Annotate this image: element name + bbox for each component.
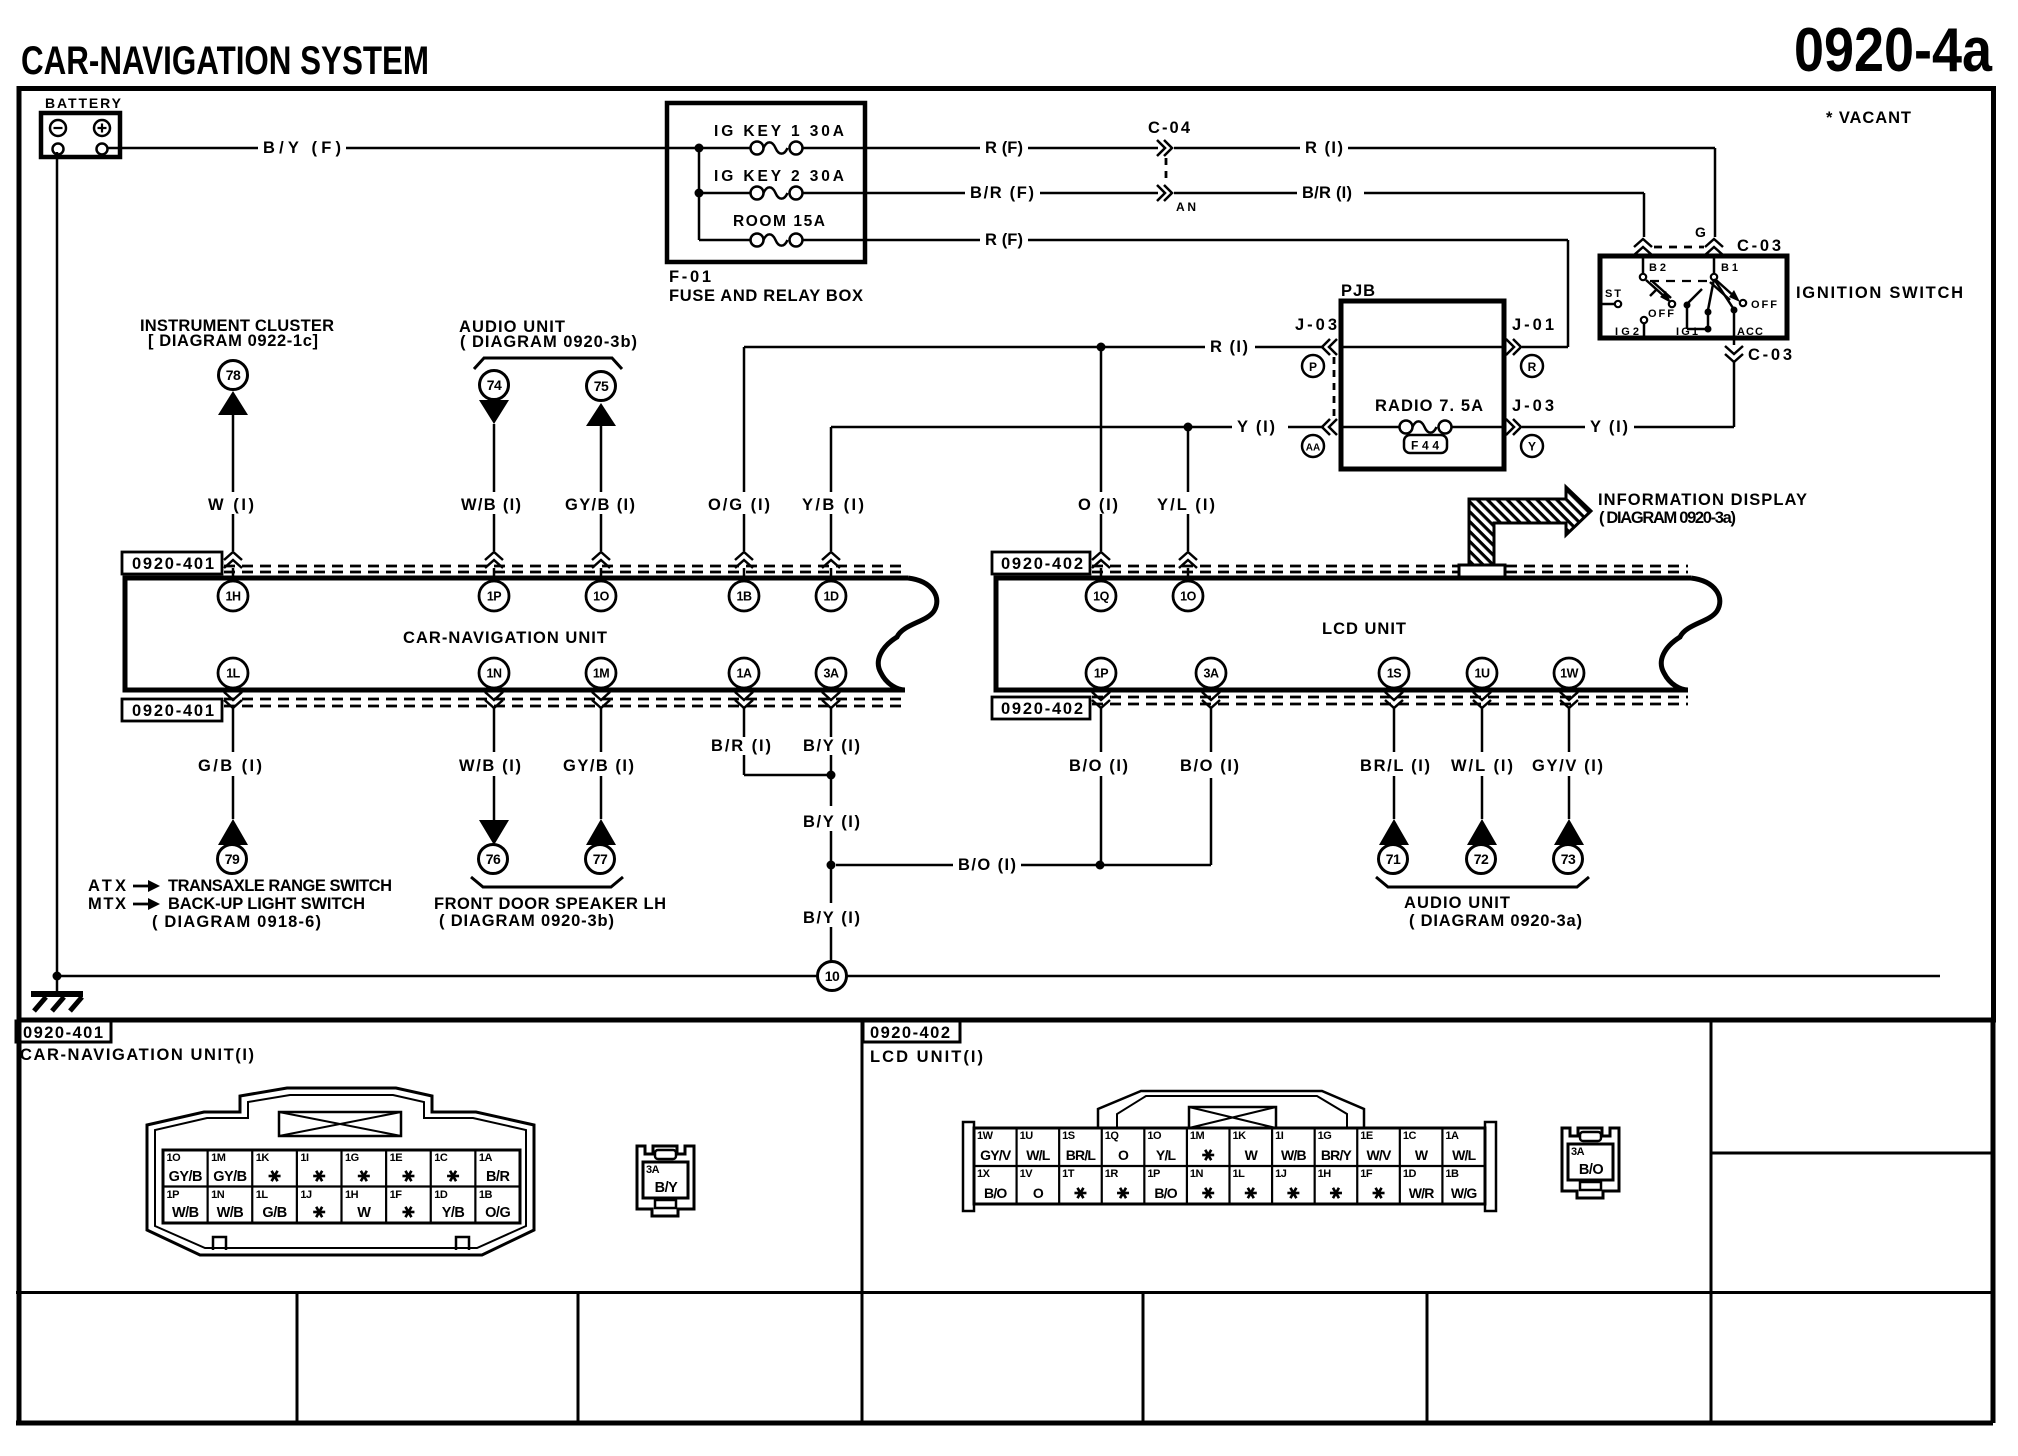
svg-text:Y/L: Y/L xyxy=(1156,1147,1177,1163)
wire GY/V(I) LCD pin 1W to 73 xyxy=(1532,708,1603,819)
svg-text:1W: 1W xyxy=(1560,667,1578,681)
LCD unit pin 1O xyxy=(1173,581,1203,611)
svg-text:R (I): R (I) xyxy=(1305,139,1343,157)
PJB J-01 pin R xyxy=(1506,316,1554,377)
ignition switch xyxy=(1600,256,1963,338)
svg-text:Y/B (I): Y/B (I) xyxy=(802,496,864,514)
svg-text:1P: 1P xyxy=(1147,1168,1160,1180)
off-page arrow 79 transaxle switch xyxy=(218,819,249,874)
svg-text:79: 79 xyxy=(225,851,240,867)
svg-text:B/Y (F): B/Y (F) xyxy=(263,139,341,157)
svg-text:1U: 1U xyxy=(1475,667,1490,681)
svg-text:B/Y: B/Y xyxy=(655,1180,679,1196)
svg-text:C-03: C-03 xyxy=(1737,237,1781,255)
main border frame xyxy=(19,89,1994,1021)
svg-text:BR/Y: BR/Y xyxy=(1321,1147,1353,1163)
off-page arrow 72 audio unit xyxy=(1467,819,1498,874)
wire B/R(I) from C-04 to ignition switch B2 xyxy=(1174,184,1644,237)
svg-text:W/B (I): W/B (I) xyxy=(459,757,521,775)
connector C-03 above ignition switch xyxy=(1634,224,1781,255)
svg-text:1R: 1R xyxy=(1105,1168,1119,1180)
svg-text:1F: 1F xyxy=(390,1189,403,1201)
svg-text:1O: 1O xyxy=(167,1152,182,1164)
svg-text:1U: 1U xyxy=(1020,1130,1034,1142)
chevrons at 0920-402 top xyxy=(1092,552,1110,578)
svg-text:1M: 1M xyxy=(211,1152,226,1164)
svg-text:O: O xyxy=(1033,1185,1044,1201)
svg-text:G/B (I): G/B (I) xyxy=(198,757,262,775)
svg-text:J-01: J-01 xyxy=(1512,316,1554,334)
svg-text:0920-401: 0920-401 xyxy=(132,555,214,573)
wire G/B(I) pin 1L to 79 xyxy=(198,708,262,819)
wire Y/L(I) from Y(I) to LCD pin 1O xyxy=(1157,427,1215,551)
LCD unit pin 1U xyxy=(1467,658,1497,688)
off-page arrow 74 audio unit xyxy=(479,371,509,425)
svg-text:BACK-UP LIGHT SWITCH: BACK-UP LIGHT SWITCH xyxy=(168,895,365,913)
wire W/L(I) LCD pin 1U to 72 xyxy=(1451,708,1513,819)
svg-text:W/G: W/G xyxy=(1451,1185,1478,1201)
svg-text:AA: AA xyxy=(1306,443,1320,454)
wire B/O(I) LCD pin 3A xyxy=(1180,757,1239,775)
svg-text:0920-402: 0920-402 xyxy=(870,1024,950,1042)
connector label 0920-401 top xyxy=(122,552,222,574)
connector label 0920-401 table xyxy=(16,1021,111,1042)
LCD connector pin grid xyxy=(974,1128,1485,1204)
svg-text:Y/B: Y/B xyxy=(442,1205,465,1221)
svg-text:72: 72 xyxy=(1474,851,1489,867)
car-navigation unit connector face xyxy=(147,1088,534,1255)
wire W/B(I) pin 1N to 76 xyxy=(459,708,521,820)
svg-text:W: W xyxy=(1415,1147,1429,1163)
svg-text:R (F): R (F) xyxy=(985,139,1023,157)
svg-text:CAR-NAVIGATION UNIT(I): CAR-NAVIGATION UNIT(I) xyxy=(20,1046,254,1064)
svg-text:W: W xyxy=(357,1205,371,1221)
svg-text:1M: 1M xyxy=(593,667,609,681)
svg-text:1F: 1F xyxy=(1360,1168,1373,1180)
svg-text:TRANSAXLE RANGE SWITCH: TRANSAXLE RANGE SWITCH xyxy=(168,877,392,895)
svg-text:AUDIO UNIT: AUDIO UNIT xyxy=(1404,894,1510,912)
svg-text:BR/L: BR/L xyxy=(1066,1147,1097,1163)
fuse IG KEY 1 30A xyxy=(667,123,865,155)
svg-text:Y (I): Y (I) xyxy=(1237,418,1275,436)
svg-text:1I: 1I xyxy=(1275,1130,1284,1142)
wire R(I) from C-04 to ignition switch B1 xyxy=(1174,139,1715,237)
svg-text:B/R (I): B/R (I) xyxy=(711,737,771,755)
svg-text:1B: 1B xyxy=(1445,1168,1459,1180)
svg-text:1Q: 1Q xyxy=(1093,590,1109,604)
PJB J-03 pin AA xyxy=(1302,419,1337,457)
svg-text:GY/V: GY/V xyxy=(980,1147,1012,1163)
svg-text:1I: 1I xyxy=(300,1152,309,1164)
svg-text:B/O: B/O xyxy=(1579,1162,1604,1178)
off-page arrow 71 audio unit xyxy=(1379,819,1410,874)
svg-text:3A: 3A xyxy=(646,1164,660,1176)
svg-text:1O: 1O xyxy=(1147,1130,1162,1142)
label front door speaker LH xyxy=(434,877,666,930)
svg-text:ROOM 15A: ROOM 15A xyxy=(733,213,825,230)
PJB J-03 pin P xyxy=(1295,316,1337,417)
svg-text:OFF: OFF xyxy=(1751,299,1777,311)
wire B/R(I) pin 1A xyxy=(711,708,831,775)
svg-text:1A: 1A xyxy=(479,1152,493,1164)
svg-text:LCD UNIT(I): LCD UNIT(I) xyxy=(870,1048,983,1066)
svg-text:B/Y (I): B/Y (I) xyxy=(803,737,860,755)
svg-text:W: W xyxy=(1245,1147,1259,1163)
wire Y(I) from PJB AA to pin 1D branch xyxy=(831,418,1324,436)
svg-text:B/Y (I): B/Y (I) xyxy=(803,813,860,831)
svg-text:1V: 1V xyxy=(1020,1168,1034,1180)
svg-text:1N: 1N xyxy=(211,1189,225,1201)
svg-text:J-03: J-03 xyxy=(1512,397,1554,415)
svg-text:IGNITION SWITCH: IGNITION SWITCH xyxy=(1796,284,1963,302)
svg-text:CAR-NAVIGATION SYSTEM: CAR-NAVIGATION SYSTEM xyxy=(21,39,429,83)
information display arrow xyxy=(1459,487,1807,577)
off-page arrow 78 instrument cluster xyxy=(140,317,334,415)
wire BR/L(I) LCD pin 1S to 71 xyxy=(1360,708,1430,819)
svg-text:B/O: B/O xyxy=(1154,1185,1177,1201)
svg-text:CAR-NAVIGATION UNIT: CAR-NAVIGATION UNIT xyxy=(403,629,607,647)
label LCD UNIT(I) xyxy=(870,1048,983,1066)
svg-text:O (I): O (I) xyxy=(1078,496,1118,514)
LCD unit pin 1P xyxy=(1086,658,1116,688)
bottom table grid xyxy=(16,1021,1993,1423)
svg-text:1J: 1J xyxy=(300,1189,312,1201)
svg-text:1N: 1N xyxy=(487,667,502,681)
connector 3A B/O xyxy=(1562,1128,1619,1198)
connector C-04 xyxy=(1148,119,1196,214)
off-page arrow 75 audio unit xyxy=(586,372,616,427)
svg-text:B/O (I): B/O (I) xyxy=(1180,757,1239,775)
svg-text:G: G xyxy=(1695,224,1706,240)
car-navigation unit pin 1D xyxy=(816,581,846,611)
svg-text:1D: 1D xyxy=(1403,1168,1417,1180)
chevrons at 0920-402 bottom xyxy=(1092,690,1110,708)
wire GY/B(I) pin 1O to 75 xyxy=(565,426,635,551)
svg-text:GY/B (I): GY/B (I) xyxy=(565,496,635,514)
connector label 0920-402 bottom xyxy=(992,697,1090,719)
svg-text:1O: 1O xyxy=(593,590,609,604)
svg-text:B/Y (I): B/Y (I) xyxy=(803,909,860,927)
fuse IG KEY 2 30A xyxy=(695,148,866,240)
connector label 0920-401 bottom xyxy=(122,699,222,721)
PJB J-03 pin Y xyxy=(1506,397,1554,457)
svg-text:0920-402: 0920-402 xyxy=(1001,700,1083,718)
off-page arrow 76 front door speaker xyxy=(479,820,510,874)
car-navigation unit pin 1M xyxy=(586,658,616,688)
ground node 10 xyxy=(818,962,847,991)
svg-text:0920-401: 0920-401 xyxy=(132,702,214,720)
svg-text:J-03: J-03 xyxy=(1295,316,1337,334)
svg-text:1S: 1S xyxy=(1062,1130,1075,1142)
svg-text:75: 75 xyxy=(594,378,609,394)
svg-text:74: 74 xyxy=(487,377,502,393)
svg-text:B/O (I): B/O (I) xyxy=(958,856,1016,874)
svg-text:1B: 1B xyxy=(479,1189,493,1201)
svg-text:0920-402: 0920-402 xyxy=(1001,555,1083,573)
page number 0920-4a xyxy=(1794,16,1992,85)
LCD unit box xyxy=(996,578,1720,690)
battery xyxy=(41,95,122,157)
wire W(I) pin 1H to 78 xyxy=(208,415,254,551)
svg-text:3A: 3A xyxy=(1204,667,1219,681)
connector dashed line 0920-401 bottom xyxy=(224,699,905,706)
svg-text:* VACANT: * VACANT xyxy=(1826,109,1911,127)
car-navigation connector pin grid xyxy=(163,1150,520,1223)
svg-text:W/V: W/V xyxy=(1367,1147,1393,1163)
svg-text:W/L: W/L xyxy=(1026,1147,1051,1163)
svg-text:W/B (I): W/B (I) xyxy=(461,496,521,514)
svg-text:P: P xyxy=(1309,360,1317,374)
connector dashed line 0920-402 bottom xyxy=(1092,697,1688,704)
fuse ROOM 15A xyxy=(699,213,865,247)
svg-text:BR/L (I): BR/L (I) xyxy=(1360,757,1430,775)
svg-text:O/G: O/G xyxy=(485,1205,510,1221)
car-navigation unit pin 1L xyxy=(218,658,248,688)
svg-text:0920-4a: 0920-4a xyxy=(1794,16,1992,85)
svg-text:78: 78 xyxy=(226,367,241,383)
svg-text:W/B: W/B xyxy=(172,1205,199,1221)
connector 3A B/Y xyxy=(637,1146,694,1216)
label ATX MTX back-up light switch xyxy=(88,877,392,931)
svg-text:Y/L (I): Y/L (I) xyxy=(1157,496,1215,514)
svg-text:R (I): R (I) xyxy=(1210,338,1248,356)
svg-text:1L: 1L xyxy=(1233,1168,1246,1180)
LCD unit connector face xyxy=(963,1091,1496,1211)
svg-text:1K: 1K xyxy=(256,1152,270,1164)
svg-text:GY/V (I): GY/V (I) xyxy=(1532,757,1603,775)
svg-text:LCD UNIT: LCD UNIT xyxy=(1322,620,1406,638)
connector dashed line 0920-401 top xyxy=(224,566,905,572)
chevrons at 0920-401 top xyxy=(224,552,242,578)
title CAR-NAVIGATION SYSTEM xyxy=(21,39,429,83)
connector C-03 below ignition switch xyxy=(1725,338,1792,364)
note vacant xyxy=(1826,109,1911,127)
LCD unit pin 1S xyxy=(1379,658,1409,688)
car-navigation unit pin 1H xyxy=(218,581,248,611)
svg-text:1C: 1C xyxy=(434,1152,448,1164)
svg-text:1X: 1X xyxy=(977,1168,991,1180)
wire Y/B(I) from Y(I) to pin 1D xyxy=(802,427,864,551)
wire R(F) fuse ROOM to PJB J-01 xyxy=(865,231,1568,347)
svg-text:GY/B (I): GY/B (I) xyxy=(563,757,634,775)
ground symbol xyxy=(31,976,83,1011)
svg-text:O/G (I): O/G (I) xyxy=(708,496,770,514)
car-navigation unit pin 3A xyxy=(816,658,846,688)
wire Y(I) from ignition ACC to PJB J-03 xyxy=(1522,362,1734,436)
connector label 0920-402 table xyxy=(863,1021,960,1042)
wire W/B(I) pin 1P to 74 xyxy=(461,424,521,551)
svg-text:( DIAGRAM 0920-3a): ( DIAGRAM 0920-3a) xyxy=(1409,912,1582,930)
svg-text:B/O (I): B/O (I) xyxy=(1069,757,1128,775)
svg-text:1W: 1W xyxy=(977,1130,994,1142)
svg-text:OFF: OFF xyxy=(1648,308,1674,320)
LCD unit pin 1W xyxy=(1554,658,1584,688)
svg-text:FRONT DOOR SPEAKER LH: FRONT DOOR SPEAKER LH xyxy=(434,895,666,913)
svg-text:71: 71 xyxy=(1386,851,1401,867)
wire B/R(F) fuse IG KEY 2 to C-04 xyxy=(865,184,1158,202)
wire R(F) fuse IG KEY 1 to C-04 xyxy=(865,139,1158,157)
svg-text:3A: 3A xyxy=(824,667,839,681)
svg-text:1H: 1H xyxy=(345,1189,359,1201)
svg-text:3A: 3A xyxy=(1571,1146,1585,1158)
svg-text:1L: 1L xyxy=(226,667,240,681)
svg-text:77: 77 xyxy=(593,851,608,867)
svg-text:1A: 1A xyxy=(737,667,752,681)
svg-text:( DIAGRAM 0918-6): ( DIAGRAM 0918-6) xyxy=(152,913,321,931)
svg-text:R (F): R (F) xyxy=(985,231,1023,249)
wire B/O(I) branch to LCD pins xyxy=(836,708,1211,874)
svg-text:ATX: ATX xyxy=(88,877,126,895)
svg-text:1N: 1N xyxy=(1190,1168,1204,1180)
LCD unit pin 3A xyxy=(1196,658,1226,688)
wire battery negative to ground bus xyxy=(53,152,62,981)
off-page arrow 73 audio unit xyxy=(1554,819,1585,874)
svg-text:W/R: W/R xyxy=(1409,1185,1435,1201)
svg-text:1T: 1T xyxy=(1062,1168,1075,1180)
wire O/G(I) from R(I) to pin 1B xyxy=(708,347,770,551)
wire B/Y(F) from battery to fuse box xyxy=(108,139,667,157)
fuse and relay box F-01 xyxy=(667,103,865,305)
chevrons at 0920-401 bottom xyxy=(224,690,242,708)
svg-text:1K: 1K xyxy=(1233,1130,1247,1142)
junction box PJB xyxy=(1341,282,1504,469)
svg-text:W/L (I): W/L (I) xyxy=(1451,757,1513,775)
svg-text:1H: 1H xyxy=(226,590,241,604)
svg-text:1G: 1G xyxy=(345,1152,359,1164)
svg-text:PJB: PJB xyxy=(1341,282,1375,300)
svg-text:1D: 1D xyxy=(434,1189,448,1201)
connector label 0920-402 top xyxy=(992,552,1090,574)
svg-text:F44: F44 xyxy=(1411,439,1439,453)
svg-text:( DIAGRAM 0920-3a): ( DIAGRAM 0920-3a) xyxy=(1599,509,1736,527)
ground bus wire xyxy=(57,975,1940,978)
car-navigation unit box xyxy=(125,578,937,690)
svg-text:1D: 1D xyxy=(824,590,839,604)
svg-text:INFORMATION DISPLAY: INFORMATION DISPLAY xyxy=(1598,491,1807,509)
svg-text:0920-401: 0920-401 xyxy=(23,1024,103,1042)
label CAR-NAVIGATION UNIT(I) xyxy=(20,1046,254,1064)
svg-text:GY/B: GY/B xyxy=(213,1169,246,1185)
off-page arrow 77 front door speaker xyxy=(586,819,617,874)
svg-text:1E: 1E xyxy=(390,1152,403,1164)
svg-text:Y (I): Y (I) xyxy=(1590,418,1628,436)
connector dashed line 0920-402 top xyxy=(1092,566,1688,572)
svg-text:F-01: F-01 xyxy=(669,268,711,286)
PJB internal bus R xyxy=(1341,346,1504,349)
svg-text:( DIAGRAM 0920-3b): ( DIAGRAM 0920-3b) xyxy=(460,333,637,351)
svg-text:C-04: C-04 xyxy=(1148,119,1191,137)
svg-text:MTX: MTX xyxy=(88,895,126,913)
svg-text:FUSE AND RELAY BOX: FUSE AND RELAY BOX xyxy=(669,287,863,305)
svg-text:1C: 1C xyxy=(1403,1130,1417,1142)
svg-text:1E: 1E xyxy=(1360,1130,1373,1142)
audio unit top labels xyxy=(459,318,637,369)
svg-text:W/L: W/L xyxy=(1452,1147,1477,1163)
svg-text:( DIAGRAM 0920-3b): ( DIAGRAM 0920-3b) xyxy=(439,912,614,930)
PJB fuse RADIO 7.5A F44 xyxy=(1341,397,1504,453)
car-navigation unit pin 1P xyxy=(479,581,509,611)
wire R(I) from PJB P to pin 1B branch xyxy=(744,338,1324,356)
svg-text:G/B: G/B xyxy=(262,1205,286,1221)
svg-text:76: 76 xyxy=(486,851,501,867)
svg-text:Y: Y xyxy=(1528,440,1536,454)
svg-text:1L: 1L xyxy=(256,1189,269,1201)
wire GY/B(I) pin 1M to 77 xyxy=(563,708,634,819)
svg-text:RADIO 7. 5A: RADIO 7. 5A xyxy=(1375,397,1483,415)
svg-text:1B: 1B xyxy=(737,590,752,604)
svg-text:C-03: C-03 xyxy=(1748,346,1792,364)
svg-text:73: 73 xyxy=(1561,851,1576,867)
svg-text:B/R: B/R xyxy=(486,1169,511,1185)
svg-text:GY/B: GY/B xyxy=(169,1169,202,1185)
svg-text:1Q: 1Q xyxy=(1105,1130,1120,1142)
svg-text:10: 10 xyxy=(825,968,840,984)
svg-text:W/B: W/B xyxy=(1281,1147,1307,1163)
svg-text:1O: 1O xyxy=(1180,590,1196,604)
svg-text:ACC: ACC xyxy=(1737,326,1763,338)
label audio unit bottom xyxy=(1376,877,1589,930)
svg-text:O: O xyxy=(1118,1147,1129,1163)
svg-text:[ DIAGRAM 0922-1c]: [ DIAGRAM 0922-1c] xyxy=(148,332,318,350)
svg-text:1A: 1A xyxy=(1445,1130,1459,1142)
svg-text:B/O: B/O xyxy=(984,1185,1007,1201)
svg-text:1P: 1P xyxy=(487,590,501,604)
svg-text:1P: 1P xyxy=(167,1189,180,1201)
svg-text:1G: 1G xyxy=(1318,1130,1332,1142)
wire B/O(I) LCD pin 1P xyxy=(1069,708,1128,865)
wire B/Y(I) pin 3A to ground 10 xyxy=(803,708,860,962)
svg-text:1H: 1H xyxy=(1318,1168,1332,1180)
svg-text:1M: 1M xyxy=(1190,1130,1205,1142)
wire O(I) from R(I) to LCD pin 1Q xyxy=(1078,347,1118,551)
svg-text:1P: 1P xyxy=(1094,667,1108,681)
car-navigation unit pin 1A xyxy=(729,658,759,688)
car-navigation unit pin 1O xyxy=(586,581,616,611)
svg-text:B/R (I): B/R (I) xyxy=(1302,184,1352,202)
svg-text:1S: 1S xyxy=(1387,667,1401,681)
car-navigation unit pin 1N xyxy=(479,658,509,688)
svg-text:W/B: W/B xyxy=(217,1205,244,1221)
LCD unit pin 1Q xyxy=(1086,581,1116,611)
svg-text:R: R xyxy=(1528,360,1537,374)
car-navigation unit pin 1B xyxy=(729,581,759,611)
svg-text:1J: 1J xyxy=(1275,1168,1287,1180)
